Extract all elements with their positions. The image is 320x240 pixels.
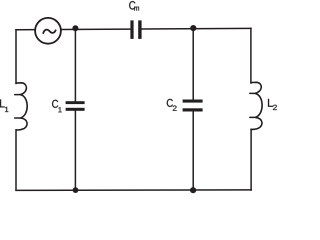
ac source V1 circle [35,18,61,44]
capacitor Cm left plate [130,20,133,39]
label C2 C [167,99,173,107]
capacitor C2 top plate [183,100,203,103]
wire top horizontal right segment [141,27,251,30]
junction node bottom C1 [73,187,79,193]
wire left vertical top [15,30,17,84]
inductor L1 coil [16,83,27,130]
inductor L1 cusp tail lower [15,117,21,119]
wire bottom horizontal [16,189,251,192]
wire top horizontal left segment [16,28,131,31]
capacitor Cm right plate [138,20,141,39]
junction node top C1 [72,25,78,31]
label Cm m [134,7,139,11]
wire C1 branch lower [74,111,76,190]
label C1 sub1 [58,107,61,112]
wire C2 branch lower [192,112,194,190]
label L2 L [268,99,273,107]
wire right vertical top [250,28,252,83]
wire C2 branch upper [192,29,194,100]
label L1 L [0,99,5,107]
wire left vertical bottom [15,130,17,190]
label Cm C [129,1,135,9]
capacitor C2 bottom plate [183,108,203,111]
label C2 sub2 [173,106,177,111]
inductor L2 cusp tail upper [250,92,256,94]
inductor L1 cusp tail upper [15,94,21,96]
inductor L2 coil [251,82,262,129]
inductor L2 cusp tail lower [250,116,256,118]
capacitor C1 top plate [66,101,85,104]
junction node bottom C2 [190,187,196,193]
junction node top C2 [190,25,196,31]
label C1 C [52,100,58,108]
capacitor C1 bottom plate [66,108,85,111]
ac source V1 sine symbol [43,30,55,33]
label L1 sub1 [5,107,8,112]
label L2 sub2 [273,105,277,110]
wire C1 branch upper [74,29,76,101]
wire right vertical bottom [250,129,252,190]
